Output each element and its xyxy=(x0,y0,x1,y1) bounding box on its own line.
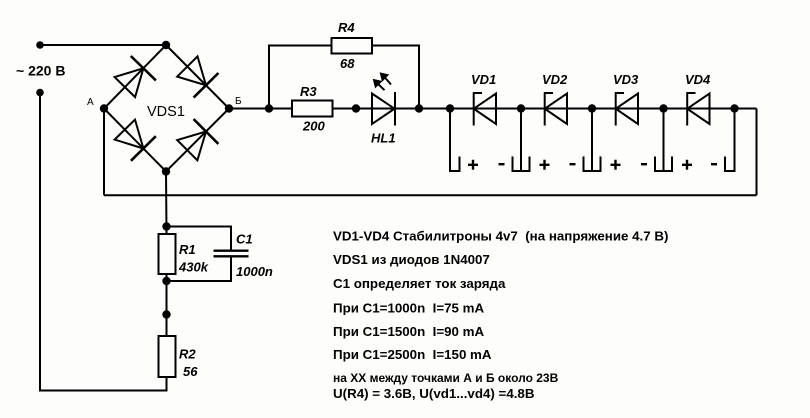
battery cup tap 3 (double) xyxy=(584,157,601,172)
svg-text:200: 200 xyxy=(302,119,325,134)
svg-text:~ 220 В: ~ 220 В xyxy=(16,63,65,79)
node bridge bottom xyxy=(162,167,170,175)
bridge diamond wires xyxy=(104,45,229,172)
resistor R2 xyxy=(159,336,176,377)
node after R3 xyxy=(352,104,360,112)
node tap4 xyxy=(659,104,667,112)
node above R1 xyxy=(162,222,170,230)
resistor R1 xyxy=(159,234,176,274)
zener VD3 xyxy=(615,93,638,126)
resistor R3 xyxy=(292,101,333,117)
svg-text:68: 68 xyxy=(340,56,355,71)
svg-text:VD2: VD2 xyxy=(542,72,568,87)
battery polarity labels xyxy=(468,160,717,170)
battery cup tap 5 xyxy=(725,109,735,172)
svg-text:U(R4) = 3.6В, U(vd1...vd4) =4.: U(R4) = 3.6В, U(vd1...vd4) =4.8В xyxy=(333,386,535,401)
diode bridge bottom-right xyxy=(177,132,206,161)
svg-text:C1 определяет ток заряда: C1 определяет ток заряда xyxy=(333,276,506,291)
terminal bottom xyxy=(36,89,44,97)
svg-text:VDS1: VDS1 xyxy=(147,104,185,120)
resistor R4 branch xyxy=(269,46,332,109)
notes text block xyxy=(333,229,668,402)
capacitor C1 branch xyxy=(167,227,232,250)
svg-text:R2: R2 xyxy=(179,347,196,362)
svg-text:VD4: VD4 xyxy=(685,72,711,87)
node tap2 xyxy=(517,104,525,112)
node tap5 xyxy=(730,104,738,112)
svg-text:C1: C1 xyxy=(236,232,253,247)
svg-text:При C1=1500n I=90 mA: При C1=1500n I=90 mA xyxy=(333,324,485,339)
svg-text:R1: R1 xyxy=(179,242,196,257)
svg-text:При C1=1000n I=75 mA: При C1=1000n I=75 mA xyxy=(333,301,485,316)
svg-text:VD3: VD3 xyxy=(613,72,639,87)
node below R1 xyxy=(162,277,170,285)
svg-text:R4: R4 xyxy=(338,20,355,35)
zener VD2 xyxy=(544,93,567,126)
svg-text:56: 56 xyxy=(183,364,198,379)
wire node A down xyxy=(103,109,105,196)
battery cup tap 2 (double) xyxy=(513,157,530,172)
node bridge top xyxy=(162,41,170,49)
LED arrows xyxy=(377,77,391,91)
wire left: lower terminal down, bottom, to R2 bottom xyxy=(40,93,167,391)
zener VD4 xyxy=(687,93,710,126)
node above R2 xyxy=(162,310,170,318)
node A xyxy=(100,104,108,112)
wire right side up xyxy=(756,109,758,196)
svg-text:При C1=2500n I=150 mA: При C1=2500n I=150 mA xyxy=(333,347,492,362)
node tap3 xyxy=(588,104,596,112)
svg-text:HL1: HL1 xyxy=(371,131,396,146)
terminal top xyxy=(36,41,44,49)
svg-text:R3: R3 xyxy=(300,84,317,99)
zener VD1 xyxy=(473,93,496,126)
svg-text:Б: Б xyxy=(235,96,242,107)
wire top from terminal to bridge top xyxy=(40,44,166,46)
diode bridge top-left xyxy=(115,68,144,97)
diode bridge top-right xyxy=(177,56,206,85)
node after HL1 xyxy=(415,104,423,112)
LED HL1 xyxy=(372,94,395,125)
battery cup tap 4 (double) xyxy=(655,157,672,172)
node R4 left xyxy=(265,104,273,112)
wire bridge bottom down to R1 chain xyxy=(165,172,168,235)
svg-text:А: А xyxy=(87,97,94,108)
svg-text:1000n: 1000n xyxy=(236,264,273,279)
diode bridge bottom-left xyxy=(115,120,144,149)
battery cup tap 1 xyxy=(450,109,460,172)
node tap1 xyxy=(446,104,454,112)
svg-text:430k: 430k xyxy=(178,260,209,275)
svg-text:VD1-VD4 Стабилитроны 4v7 (на: VD1-VD4 Стабилитроны 4v7 (на напряжение … xyxy=(333,229,668,244)
svg-text:на XX между точками А и Б окол: на XX между точками А и Б около 23В xyxy=(333,371,559,385)
wire main line B to right corner xyxy=(229,108,757,110)
wire bottom return xyxy=(104,194,757,196)
svg-text:VDS1 из диодов 1N4007: VDS1 из диодов 1N4007 xyxy=(333,252,490,267)
node B xyxy=(225,104,233,112)
svg-text:VD1: VD1 xyxy=(471,72,496,87)
